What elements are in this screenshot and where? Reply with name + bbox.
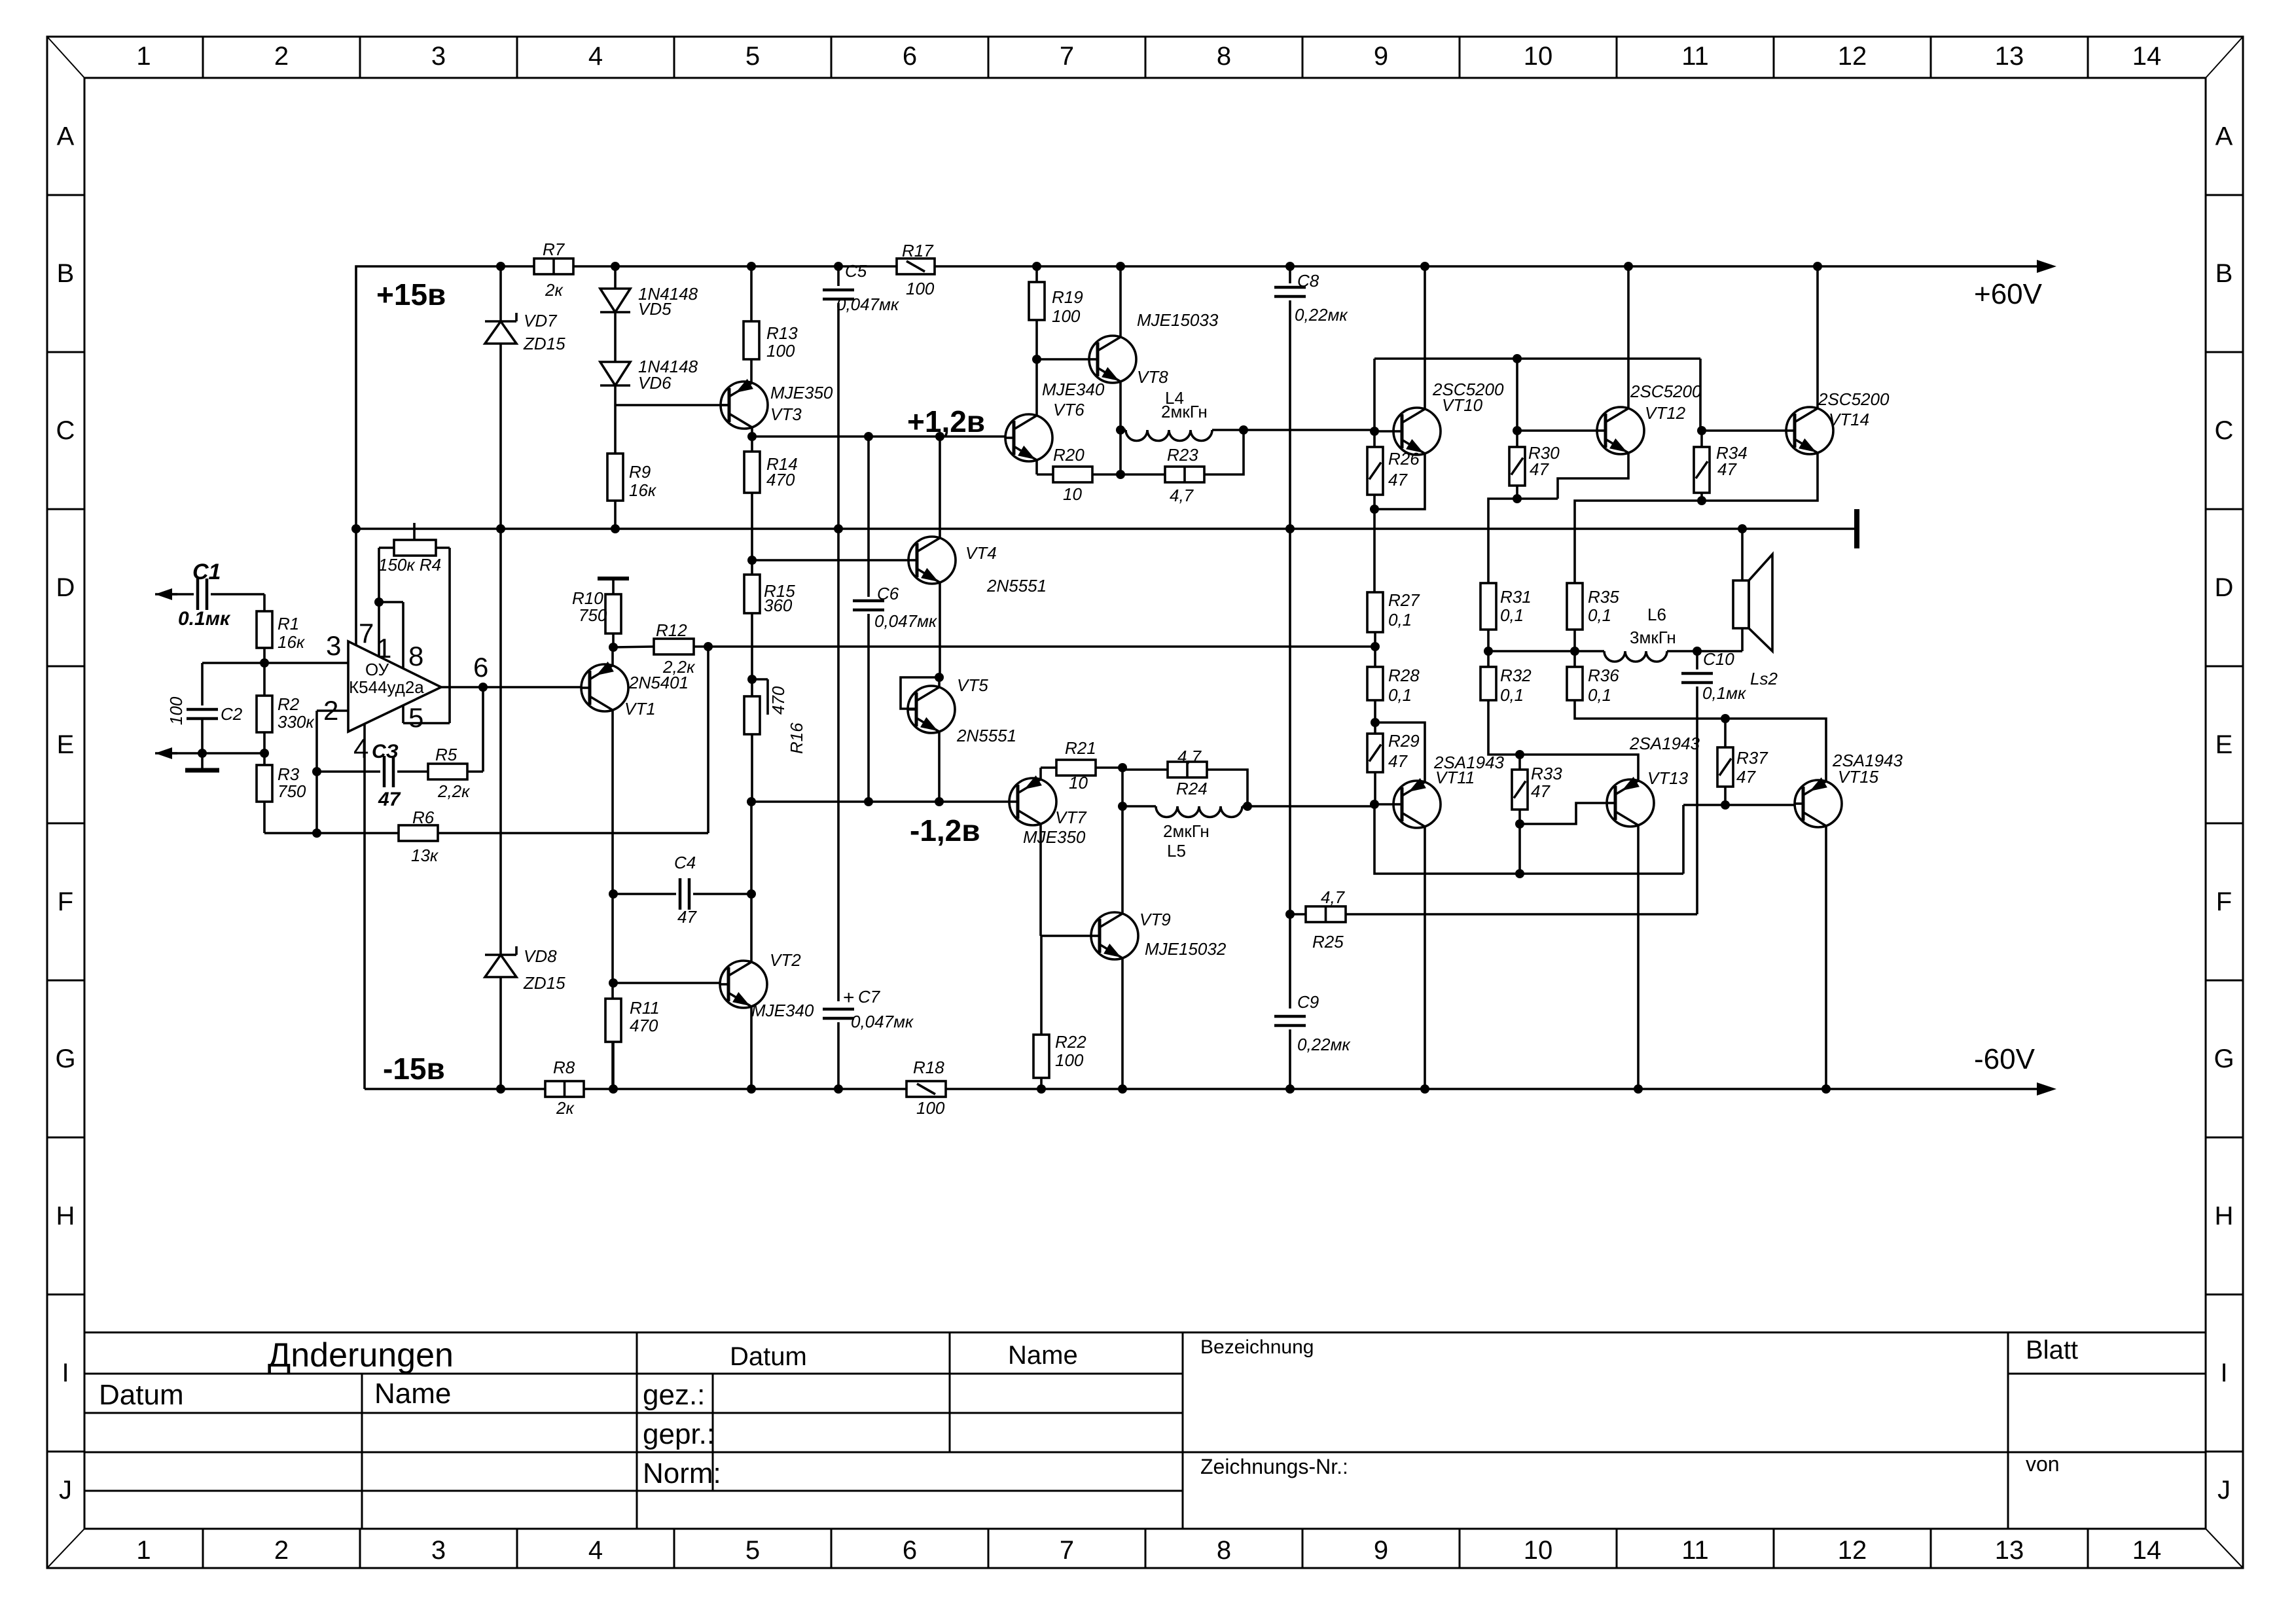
svg-text:Datum: Datum xyxy=(730,1342,807,1371)
svg-text:MJE15032: MJE15032 xyxy=(1145,939,1227,959)
svg-text:5: 5 xyxy=(408,702,423,733)
svg-text:Zeichnungs-Nr.:: Zeichnungs-Nr.: xyxy=(1200,1455,1348,1478)
svg-text:47: 47 xyxy=(378,789,401,810)
svg-text:47: 47 xyxy=(1388,751,1408,771)
svg-text:Name: Name xyxy=(374,1378,451,1410)
svg-text:4,7: 4,7 xyxy=(1321,887,1346,907)
svg-text:R16: R16 xyxy=(787,722,806,754)
svg-text:9: 9 xyxy=(1374,1536,1388,1565)
svg-text:470: 470 xyxy=(768,686,788,715)
svg-text:von: von xyxy=(2026,1452,2060,1476)
svg-text:10: 10 xyxy=(1063,484,1082,504)
svg-text:13: 13 xyxy=(1995,1536,2024,1565)
svg-text:8: 8 xyxy=(1217,1536,1231,1565)
svg-text:ZD15: ZD15 xyxy=(523,973,565,993)
svg-text:0,1мк: 0,1мк xyxy=(1702,683,1747,703)
svg-text:+: + xyxy=(843,987,855,1008)
svg-text:R12: R12 xyxy=(656,620,687,640)
svg-text:D: D xyxy=(2215,573,2234,602)
svg-text:2мкГн: 2мкГн xyxy=(1161,402,1208,421)
svg-text:ZD15: ZD15 xyxy=(523,334,565,353)
svg-text:Ls2: Ls2 xyxy=(1750,669,1778,688)
svg-text:470: 470 xyxy=(630,1016,658,1035)
svg-text:VT7: VT7 xyxy=(1055,808,1087,827)
svg-text:750: 750 xyxy=(278,781,306,801)
svg-text:C9: C9 xyxy=(1297,992,1319,1012)
svg-text:5: 5 xyxy=(745,1536,760,1565)
svg-text:R25: R25 xyxy=(1312,932,1344,952)
svg-text:+1,2в: +1,2в xyxy=(907,404,985,438)
svg-text:0,047мк: 0,047мк xyxy=(874,611,938,631)
svg-text:R17: R17 xyxy=(902,241,934,260)
svg-text:47: 47 xyxy=(677,907,697,927)
svg-text:12: 12 xyxy=(1838,42,1867,71)
svg-text:D: D xyxy=(56,573,75,602)
svg-text:470: 470 xyxy=(766,470,795,490)
svg-text:14: 14 xyxy=(2132,42,2162,71)
svg-text:47: 47 xyxy=(1717,459,1737,479)
svg-text:9: 9 xyxy=(1374,42,1388,71)
svg-text:2: 2 xyxy=(274,1536,289,1565)
svg-text:14: 14 xyxy=(2132,1536,2162,1565)
svg-text:4,7: 4,7 xyxy=(1177,747,1202,766)
svg-text:0,22мк: 0,22мк xyxy=(1297,1035,1351,1054)
svg-text:0,047мк: 0,047мк xyxy=(851,1012,914,1031)
svg-text:-1,2в: -1,2в xyxy=(910,813,980,847)
svg-text:R27: R27 xyxy=(1388,590,1420,610)
svg-text:VD5: VD5 xyxy=(638,299,672,319)
svg-text:10: 10 xyxy=(1524,1536,1553,1565)
svg-text:VD7: VD7 xyxy=(524,311,558,330)
svg-text:2к: 2к xyxy=(545,280,564,300)
svg-text:B: B xyxy=(2215,259,2233,288)
svg-text:100: 100 xyxy=(766,341,795,361)
svg-text:R33: R33 xyxy=(1531,764,1562,783)
svg-text:MJE340: MJE340 xyxy=(751,1001,814,1020)
svg-text:R32: R32 xyxy=(1500,666,1532,685)
svg-text:Name: Name xyxy=(1008,1341,1078,1370)
svg-text:VT3: VT3 xyxy=(770,404,802,424)
svg-text:F: F xyxy=(58,887,73,916)
svg-text:C10: C10 xyxy=(1703,649,1734,669)
svg-text:R28: R28 xyxy=(1388,666,1420,685)
svg-text:VT12: VT12 xyxy=(1645,403,1686,423)
svg-text:330к: 330к xyxy=(278,712,315,732)
svg-text:4,7: 4,7 xyxy=(1170,486,1194,505)
svg-text:R31: R31 xyxy=(1500,587,1532,607)
svg-text:2мкГн: 2мкГн xyxy=(1163,821,1210,841)
svg-text:C2: C2 xyxy=(221,704,243,724)
svg-text:750: 750 xyxy=(579,605,607,625)
svg-text:R35: R35 xyxy=(1588,587,1619,607)
svg-text:К544уд2а: К544уд2а xyxy=(349,677,424,697)
svg-text:R18: R18 xyxy=(913,1058,944,1077)
svg-text:1: 1 xyxy=(136,1536,151,1565)
svg-text:16к: 16к xyxy=(629,480,657,500)
svg-text:VT9: VT9 xyxy=(1139,910,1171,929)
svg-text:47: 47 xyxy=(1736,767,1756,787)
svg-text:VT15: VT15 xyxy=(1838,767,1879,787)
svg-text:MJE340: MJE340 xyxy=(1042,380,1105,399)
svg-text:Blatt: Blatt xyxy=(2026,1336,2078,1364)
svg-text:2N5551: 2N5551 xyxy=(956,726,1016,745)
svg-text:R20: R20 xyxy=(1053,445,1085,465)
svg-text:VT13: VT13 xyxy=(1647,768,1689,788)
svg-text:R6: R6 xyxy=(412,808,435,827)
svg-text:E: E xyxy=(57,730,75,759)
svg-text:6: 6 xyxy=(903,42,917,71)
svg-text:MJE350: MJE350 xyxy=(770,383,833,402)
svg-text:VT6: VT6 xyxy=(1053,400,1085,419)
svg-text:MJE15033: MJE15033 xyxy=(1137,310,1219,330)
svg-text:0,1: 0,1 xyxy=(1500,605,1524,625)
svg-text:A: A xyxy=(57,122,75,151)
svg-text:VD6: VD6 xyxy=(638,373,672,393)
svg-text:G: G xyxy=(2214,1044,2234,1073)
svg-text:11: 11 xyxy=(1681,42,1709,71)
svg-text:C6: C6 xyxy=(877,584,899,603)
svg-text:4: 4 xyxy=(353,733,368,764)
svg-text:100: 100 xyxy=(1055,1050,1084,1070)
svg-text:+60V: +60V xyxy=(1974,278,2043,310)
svg-text:R22: R22 xyxy=(1055,1032,1086,1052)
svg-text:8: 8 xyxy=(1217,42,1231,71)
svg-text:R23: R23 xyxy=(1167,445,1198,465)
svg-text:VT11: VT11 xyxy=(1435,768,1475,787)
svg-text:2SA1943: 2SA1943 xyxy=(1629,734,1700,753)
svg-text:2N5401: 2N5401 xyxy=(628,673,689,692)
svg-text:0,1: 0,1 xyxy=(1388,610,1412,630)
svg-text:A: A xyxy=(2215,122,2233,151)
svg-text:R11: R11 xyxy=(630,998,660,1018)
svg-text:2N5551: 2N5551 xyxy=(986,576,1047,596)
svg-text:VT4: VT4 xyxy=(965,543,997,563)
svg-text:C: C xyxy=(2215,416,2234,445)
svg-text:R29: R29 xyxy=(1388,731,1420,751)
svg-text:Norm:: Norm: xyxy=(643,1457,721,1489)
svg-text:0,047мк: 0,047мк xyxy=(836,294,900,314)
svg-text:10: 10 xyxy=(1524,42,1553,71)
svg-text:C8: C8 xyxy=(1297,271,1319,291)
svg-text:100: 100 xyxy=(906,279,935,298)
svg-text:R8: R8 xyxy=(553,1058,575,1077)
svg-text:2SC5200: 2SC5200 xyxy=(1818,389,1890,409)
svg-text:1: 1 xyxy=(376,633,391,664)
svg-text:8: 8 xyxy=(408,641,423,671)
svg-text:R1: R1 xyxy=(278,614,299,633)
svg-text:R13: R13 xyxy=(766,323,798,343)
svg-text:MJE350: MJE350 xyxy=(1023,827,1086,847)
svg-text:R5: R5 xyxy=(435,745,457,764)
svg-text:B: B xyxy=(57,259,75,288)
svg-text:0,1: 0,1 xyxy=(1588,605,1611,625)
svg-text:47: 47 xyxy=(1388,470,1408,490)
svg-text:H: H xyxy=(2215,1202,2234,1230)
svg-text:gez.:: gez.: xyxy=(643,1379,705,1411)
svg-text:C7: C7 xyxy=(858,987,881,1007)
svg-text:J: J xyxy=(59,1476,72,1505)
svg-text:100: 100 xyxy=(166,696,186,725)
svg-text:0,22мк: 0,22мк xyxy=(1295,305,1348,325)
svg-text:3: 3 xyxy=(326,630,341,661)
svg-text:2SC5200: 2SC5200 xyxy=(1630,382,1702,401)
svg-text:100: 100 xyxy=(916,1098,945,1118)
svg-text:F: F xyxy=(2216,887,2232,916)
svg-text:E: E xyxy=(2215,730,2233,759)
svg-text:C1: C1 xyxy=(192,560,221,584)
svg-text:4: 4 xyxy=(588,1536,603,1565)
svg-text:L5: L5 xyxy=(1167,841,1186,861)
svg-text:VT10: VT10 xyxy=(1442,395,1483,415)
svg-text:CЗ: CЗ xyxy=(372,741,399,762)
svg-text:13: 13 xyxy=(1995,42,2024,71)
svg-text:0.1мк: 0.1мк xyxy=(178,608,231,630)
svg-text:R37: R37 xyxy=(1736,748,1768,768)
svg-text:J: J xyxy=(2217,1476,2231,1505)
svg-text:2к: 2к xyxy=(556,1098,575,1118)
svg-text:R26: R26 xyxy=(1388,449,1420,469)
svg-text:VT8: VT8 xyxy=(1137,367,1168,387)
svg-text:12: 12 xyxy=(1838,1536,1867,1565)
svg-text:R21: R21 xyxy=(1065,738,1096,758)
svg-text:VT14: VT14 xyxy=(1829,410,1869,429)
svg-text:Datum: Datum xyxy=(99,1379,184,1411)
svg-text:2: 2 xyxy=(323,695,338,726)
svg-text:5: 5 xyxy=(745,42,760,71)
svg-text:6: 6 xyxy=(903,1536,917,1565)
svg-text:+15в: +15в xyxy=(376,277,446,312)
svg-text:L6: L6 xyxy=(1647,605,1666,624)
svg-text:6: 6 xyxy=(473,652,488,683)
svg-text:0,1: 0,1 xyxy=(1500,685,1524,705)
svg-text:2,2к: 2,2к xyxy=(437,781,471,801)
svg-text:VD8: VD8 xyxy=(524,946,557,966)
svg-text:2: 2 xyxy=(274,42,289,71)
svg-text:H: H xyxy=(56,1202,75,1230)
svg-text:R9: R9 xyxy=(629,462,651,482)
svg-text:VT1: VT1 xyxy=(624,699,656,719)
svg-text:VT5: VT5 xyxy=(957,675,988,695)
svg-text:360: 360 xyxy=(764,596,793,615)
svg-text:-60V: -60V xyxy=(1974,1043,2036,1075)
svg-text:4: 4 xyxy=(588,42,603,71)
svg-text:11: 11 xyxy=(1681,1536,1709,1565)
svg-text:VT2: VT2 xyxy=(770,950,801,970)
svg-text:3: 3 xyxy=(431,1536,446,1565)
svg-text:13к: 13к xyxy=(411,846,439,865)
svg-text:1: 1 xyxy=(136,42,151,71)
svg-text:16к: 16к xyxy=(278,632,306,652)
svg-text:R2: R2 xyxy=(278,694,300,714)
svg-text:R19: R19 xyxy=(1052,287,1083,307)
svg-text:C: C xyxy=(56,416,75,445)
svg-text:0,1: 0,1 xyxy=(1388,685,1412,705)
svg-text:I: I xyxy=(62,1359,69,1387)
svg-text:150к R4: 150к R4 xyxy=(378,555,441,575)
svg-text:10: 10 xyxy=(1069,773,1088,793)
svg-text:7: 7 xyxy=(1060,1536,1074,1565)
svg-text:Bezeichnung: Bezeichnung xyxy=(1200,1336,1314,1358)
svg-text:C4: C4 xyxy=(674,853,696,872)
svg-text:R7: R7 xyxy=(543,240,565,259)
svg-text:-15в: -15в xyxy=(383,1052,445,1086)
svg-text:3мкГн: 3мкГн xyxy=(1630,628,1676,647)
svg-text:47: 47 xyxy=(1530,459,1549,479)
svg-text:R36: R36 xyxy=(1588,666,1619,685)
svg-text:gepr.:: gepr.: xyxy=(643,1418,715,1450)
svg-text:3: 3 xyxy=(431,42,446,71)
svg-text:0,1: 0,1 xyxy=(1588,685,1611,705)
svg-text:I: I xyxy=(2220,1359,2227,1387)
svg-text:7: 7 xyxy=(359,618,374,649)
svg-text:47: 47 xyxy=(1531,781,1551,801)
svg-text:R24: R24 xyxy=(1176,779,1208,798)
svg-text:7: 7 xyxy=(1060,42,1074,71)
svg-text:Дnderungen: Дnderungen xyxy=(268,1336,454,1374)
svg-text:C5: C5 xyxy=(845,261,867,281)
svg-text:G: G xyxy=(55,1044,75,1073)
svg-text:100: 100 xyxy=(1052,306,1081,326)
